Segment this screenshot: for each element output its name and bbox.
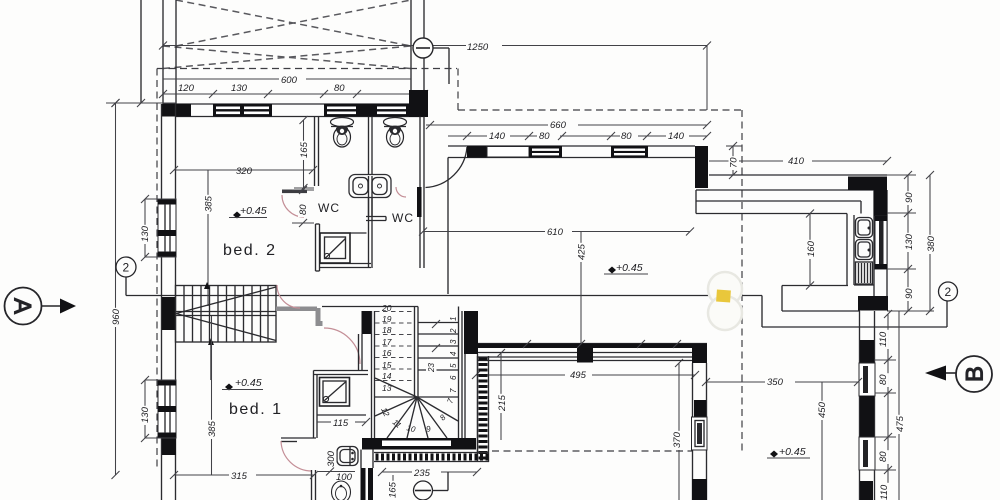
dim 385 bed1 (211, 316, 213, 475)
wall segment black top-left (161, 104, 191, 117)
svg-text:6: 6 (449, 375, 458, 380)
base line right (887, 310, 934, 312)
winder numbers (379, 397, 455, 434)
svg-text:300: 300 (326, 450, 337, 467)
watermark circles (708, 272, 742, 330)
hall band black start (467, 146, 487, 158)
svg-text:130: 130 (140, 225, 151, 242)
dashed canopy right (741, 110, 743, 451)
dim 130 left lower (141, 376, 176, 442)
left lower wall black a (694, 400, 706, 417)
svg-text:15: 15 (382, 360, 392, 370)
stair south wall black with window (362, 438, 476, 450)
svg-text:600: 600 (281, 75, 298, 86)
svg-text:16: 16 (382, 348, 392, 358)
stair2 top line (322, 306, 418, 308)
svg-text:110: 110 (878, 331, 889, 347)
svg-text:80: 80 (539, 131, 550, 142)
left wall inner line full (175, 104, 177, 500)
hall wall band top line (448, 145, 695, 147)
wall vertical top-left guide (140, 0, 142, 103)
WC room bidet (332, 481, 351, 500)
hall window W6 (611, 146, 648, 158)
stair2 right black block (464, 311, 478, 354)
svg-text:1: 1 (449, 317, 458, 321)
section line 2-2 (126, 296, 947, 328)
dim row 120/130/80 (159, 90, 428, 98)
closet wall stub (366, 217, 386, 221)
svg-text:7: 7 (449, 388, 458, 393)
svg-text:235: 235 (413, 468, 431, 479)
svg-text:610: 610 (547, 227, 564, 238)
stair2 right wall (459, 307, 463, 439)
dashed eave line (157, 68, 457, 70)
dim chain 90/130/90 (887, 171, 916, 315)
svg-text:5: 5 (449, 363, 458, 368)
dim 380 vertical (926, 171, 934, 315)
living wall center pillar (577, 344, 593, 363)
living wall right pillar (692, 344, 707, 364)
roof hatch X lower flat (163, 46, 411, 69)
window left lower (158, 380, 176, 438)
svg-text:20: 20 (381, 303, 392, 313)
dim 115 (317, 418, 370, 426)
kitchen sink unit (854, 215, 874, 285)
svg-text:495: 495 (570, 370, 587, 381)
center wall lines top (410, 0, 412, 104)
left wall outer line full (161, 104, 163, 500)
svg-text:WC: WC (318, 201, 340, 215)
svg-text:475: 475 (895, 415, 906, 432)
right wall black below corner (874, 180, 887, 216)
lower wall door gap (361, 450, 373, 469)
hall corner black block (695, 146, 708, 188)
double washbasin (349, 175, 391, 269)
dashed canopy top (458, 109, 742, 111)
dim 410 (709, 157, 891, 165)
svg-text:140: 140 (489, 131, 506, 142)
left lower wall black b (692, 479, 707, 500)
window top W3 (374, 104, 409, 117)
svg-text:160: 160 (806, 240, 817, 257)
entry steps lines (696, 190, 861, 214)
baluster strip horizontal (374, 453, 489, 462)
svg-text:165: 165 (299, 141, 310, 158)
living south wall band (478, 344, 707, 361)
dim 475 vertical (898, 311, 900, 500)
dashed corner verticals right of roof (457, 69, 459, 111)
axis bubble 2 right (939, 282, 958, 301)
svg-text:1250: 1250 (467, 42, 489, 53)
svg-text:320: 320 (236, 166, 253, 177)
stair1 direction arrows (204, 282, 214, 380)
WC divider wall (369, 117, 373, 217)
lower right window 2 (859, 437, 875, 470)
dim 215 vertical (497, 349, 505, 440)
bed1 door jamb black (362, 311, 373, 334)
hall window W5 (529, 146, 562, 158)
svg-text:+0.45: +0.45 (779, 446, 806, 458)
axis bubble 1 bottom (414, 472, 449, 500)
stair1 treads (184, 286, 268, 343)
svg-text:B: B (962, 366, 989, 382)
handrail hook (316, 321, 323, 326)
handrail L down (316, 308, 321, 324)
bed2 door leaf (282, 190, 307, 194)
terrace wall lines right of stair (465, 354, 478, 452)
svg-text:+0.45: +0.45 (616, 262, 643, 274)
svg-text:90: 90 (904, 192, 915, 203)
stair2 number 23 (426, 360, 437, 374)
bed1 south door swing (281, 441, 312, 471)
dim chain 110/80/80/110 (875, 310, 897, 500)
stair2 tread numbers upper (381, 303, 392, 393)
kitchen interior corner (846, 214, 848, 286)
lower double wall black bars (361, 468, 374, 500)
svg-text:130: 130 (904, 233, 915, 250)
dim 130 left upper (141, 195, 176, 261)
dim 165 bottom (392, 475, 394, 500)
kitchen north wall top line (709, 174, 887, 176)
kitchen north wall black end (848, 177, 887, 191)
svg-text:WC: WC (392, 211, 414, 225)
stair2 dashed treads upper flight (375, 312, 414, 381)
bed2 east wall upper (315, 117, 319, 187)
svg-text:23: 23 (427, 363, 436, 373)
section marker A (5, 288, 77, 325)
WC2 small swing (396, 187, 406, 197)
svg-text:380: 380 (926, 235, 937, 252)
stair2 center rails (415, 307, 419, 398)
svg-text:bed. 1: bed. 1 (229, 401, 282, 418)
left wall outer line top (162, 0, 164, 104)
top wall band lines (163, 103, 428, 105)
WC room toilet (337, 447, 358, 466)
dim row 140/80/80/140 (448, 132, 711, 140)
right wall upper (874, 190, 887, 296)
stair2 right number column (449, 317, 458, 393)
stair1 outline (176, 286, 277, 343)
corridor east wall (447, 158, 449, 295)
dim 300 rot (326, 450, 337, 469)
svg-text:80: 80 (878, 374, 889, 385)
svg-text:120: 120 (178, 83, 195, 94)
dashed line along left wall (156, 69, 158, 471)
dim line top-left short (106, 99, 176, 107)
dim 610 (419, 228, 694, 236)
baluster strip vertical (478, 356, 489, 462)
svg-text:960: 960 (111, 308, 122, 325)
lower right wall lines (860, 311, 875, 500)
bath1 counter line (317, 414, 366, 416)
svg-text:140: 140 (668, 131, 685, 142)
toilet WC2 (384, 118, 407, 148)
svg-text:80: 80 (298, 204, 309, 215)
bath niche south wall (320, 233, 372, 268)
bath1 west wall (314, 371, 318, 439)
svg-text:350: 350 (767, 377, 784, 388)
lower right wall black 2 (860, 396, 874, 437)
lower right wall black 1 (860, 340, 874, 363)
svg-text:80: 80 (334, 83, 345, 94)
section marker B (925, 356, 992, 392)
svg-text:4: 4 (449, 351, 458, 356)
lower right wall black 3 (860, 481, 873, 500)
svg-text:+0.45: +0.45 (240, 205, 267, 217)
dim 70 vertical (726, 142, 742, 179)
corridor door swing (426, 147, 468, 188)
dim 385 bed2 (207, 170, 209, 306)
stair1 cut diagonals (176, 287, 276, 341)
svg-text:130: 130 (231, 83, 248, 94)
window left upper (158, 199, 176, 257)
dim 165 vertical (294, 116, 314, 192)
door swing stair top (277, 285, 300, 308)
svg-text:90: 90 (904, 288, 915, 299)
dim 450 vertical (821, 382, 823, 500)
right wall black block at stair of section (858, 296, 888, 311)
svg-text:80: 80 (878, 451, 889, 462)
dim 370 vertical (675, 359, 683, 500)
left lower wall x700 lines (693, 363, 707, 500)
wall black between windows (359, 104, 374, 117)
level mark living (604, 262, 648, 274)
corridor west wall (420, 117, 424, 269)
handrail gray bar (276, 307, 317, 312)
shower bed2 (320, 233, 350, 263)
right window vertical kitchen (875, 216, 887, 269)
wall black left below window (162, 438, 176, 455)
dim 160 vertical (806, 210, 814, 290)
svg-text:315: 315 (231, 471, 248, 482)
svg-text:3: 3 (449, 339, 458, 344)
stair2 lower tread ticks (432, 320, 440, 352)
dim 1250 line (159, 42, 711, 111)
svg-text:370: 370 (672, 431, 683, 448)
svg-text:+0.45: +0.45 (235, 377, 262, 389)
dim 495 (472, 371, 699, 379)
window top W1 (213, 104, 272, 117)
dim 320 (170, 166, 317, 174)
window lower-left of terrace (692, 417, 708, 450)
dim 350 (702, 378, 862, 386)
svg-text:110: 110 (879, 484, 890, 500)
window top W2 (324, 104, 359, 117)
svg-text:115: 115 (333, 418, 349, 429)
shower bed1 (320, 378, 350, 407)
svg-text:410: 410 (788, 156, 805, 167)
svg-text:18: 18 (382, 325, 392, 335)
dim 235 (378, 468, 481, 476)
stair2 winder fan (375, 378, 458, 438)
left wall inner line top (175, 0, 177, 104)
svg-text:130: 130 (140, 406, 151, 423)
svg-text:80: 80 (621, 131, 632, 142)
bed1 south door jamb (312, 470, 316, 500)
bed2 east wall lower (316, 224, 320, 271)
wall black left middle (162, 297, 176, 330)
svg-text:70: 70 (729, 157, 740, 168)
stair1 middle rails (176, 312, 277, 316)
dim 960 vertical (112, 99, 120, 479)
grid bubble top (413, 38, 449, 84)
kitchen north wall bottom line (709, 189, 887, 191)
bed1 door leaf wall (359, 334, 363, 371)
svg-text:385: 385 (204, 195, 215, 212)
stair2 solid treads lower flight (418, 323, 459, 371)
svg-text:17: 17 (382, 337, 392, 347)
bed1 south wall stub (281, 438, 316, 442)
bed1 door swing (324, 328, 360, 364)
svg-text:2: 2 (123, 261, 130, 275)
level mark bed1 (222, 377, 263, 391)
dim 315 (170, 471, 318, 479)
svg-text:165: 165 (388, 481, 399, 498)
svg-text:660: 660 (550, 120, 567, 131)
stair2 left wall (372, 311, 375, 440)
svg-text:bed. 2: bed. 2 (223, 242, 276, 259)
svg-text:425: 425 (577, 243, 588, 260)
axis bubble 2 left (116, 257, 136, 296)
corner wall black top-right of bedroom wing (409, 90, 428, 117)
svg-text:2: 2 (449, 328, 458, 334)
svg-text:19: 19 (382, 314, 392, 324)
interior step living-kitchen (782, 286, 860, 312)
svg-text:14: 14 (382, 371, 392, 381)
roof hatch X upper (176, 0, 411, 46)
dashed canopy bottom (492, 450, 692, 452)
svg-text:450: 450 (817, 401, 828, 418)
toilet WC1 (331, 118, 354, 148)
svg-text:2: 2 (945, 285, 952, 299)
level mark bed2 (229, 205, 267, 219)
bed2 door dim 80 (292, 186, 314, 227)
dim 600 (163, 78, 411, 80)
lower right window 1 (859, 363, 875, 396)
hall wall band bottom line (448, 157, 707, 159)
ticks on living wall (523, 340, 681, 348)
WC2 door jamb black (417, 187, 422, 217)
bed2 door swing (282, 195, 304, 217)
hall window frame W4 (487, 147, 529, 158)
svg-text:385: 385 (207, 420, 218, 437)
svg-text:A: A (9, 298, 36, 314)
dim 660 (426, 121, 711, 129)
dim 425 vertical (580, 232, 582, 344)
level mark terrace (767, 446, 810, 458)
bed1 north wall (314, 371, 369, 375)
svg-text:215: 215 (497, 394, 508, 412)
